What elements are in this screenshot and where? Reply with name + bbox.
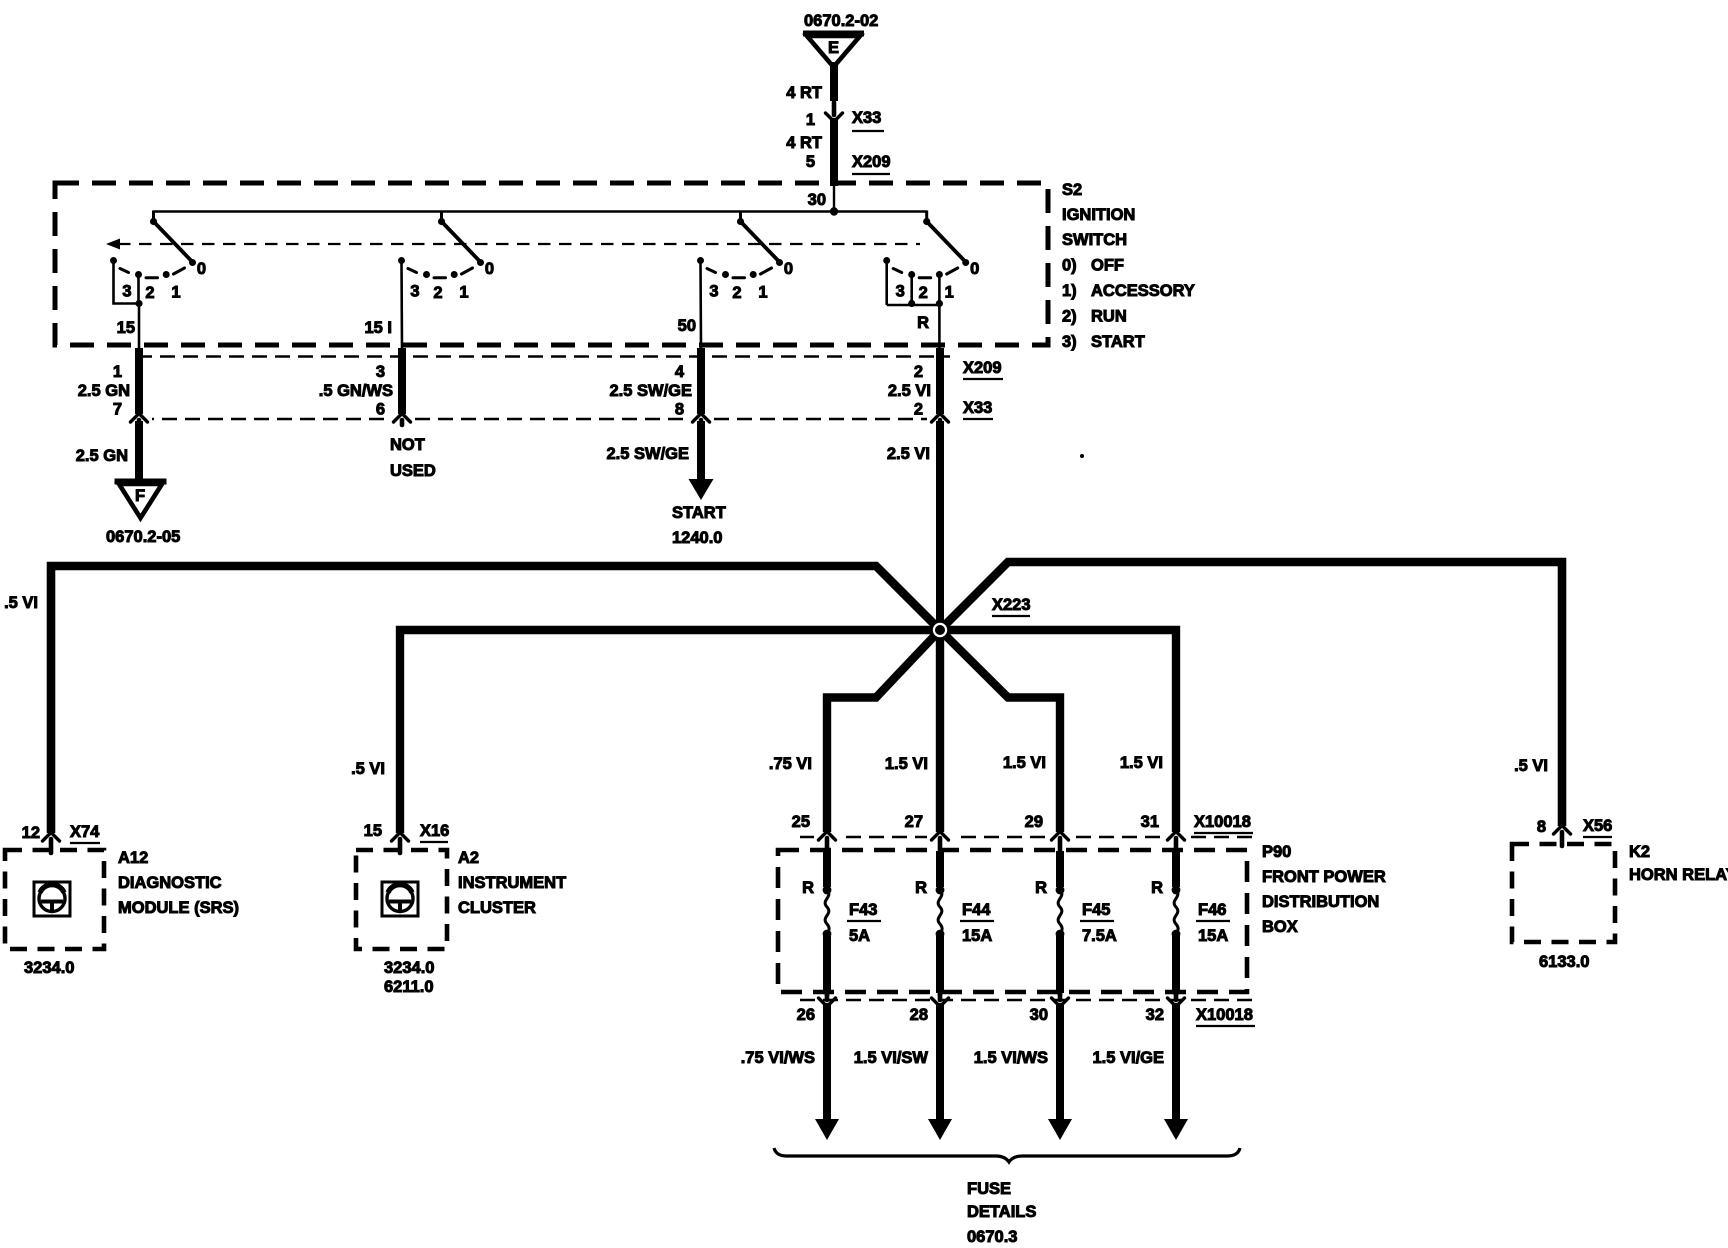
svg-text:.5 GN/WS: .5 GN/WS — [319, 382, 393, 400]
svg-text:X16: X16 — [420, 822, 449, 840]
wire 1.5 VI branch to fuse F45 pin 29 — [940, 630, 1060, 835]
svg-text:7.5A: 7.5A — [1082, 927, 1117, 945]
svg-text:SWITCH: SWITCH — [1062, 231, 1127, 249]
connector X74 pin 12 — [22, 823, 101, 853]
connector X10018 pin 25 — [792, 813, 840, 851]
svg-text:R: R — [1035, 879, 1047, 897]
splice X223 — [929, 596, 1030, 641]
svg-text:0: 0 — [485, 260, 494, 278]
X209 / X33 labels — [963, 359, 1003, 419]
svg-text:INSTRUMENT: INSTRUMENT — [458, 874, 566, 892]
svg-text:8: 8 — [1537, 818, 1546, 836]
svg-text:8: 8 — [675, 401, 684, 419]
svg-text:2: 2 — [914, 363, 923, 381]
wire 1.5 VI branch to fuse F44 pin 27 — [936, 630, 944, 835]
svg-text:2: 2 — [914, 401, 923, 419]
module A2 instrument cluster box — [356, 850, 447, 949]
relay K2 horn relay box — [1512, 844, 1615, 942]
svg-text:15A: 15A — [1198, 927, 1228, 945]
svg-text:2.5 VI: 2.5 VI — [887, 445, 930, 463]
svg-text:1.5 VI: 1.5 VI — [1003, 754, 1046, 772]
svg-text:15 I: 15 I — [364, 319, 392, 337]
ignition switch S2 enclosure — [55, 183, 1048, 345]
svg-text:15: 15 — [364, 822, 382, 840]
connector X16 pin 15 — [364, 822, 450, 853]
svg-text:2: 2 — [919, 284, 928, 302]
S2 ignition switch legend — [1062, 181, 1195, 351]
svg-text:DETAILS: DETAILS — [967, 1203, 1036, 1221]
output wire 1.5 VI/GE with arrow — [1092, 1003, 1188, 1140]
svg-text:FRONT POWER: FRONT POWER — [1262, 868, 1386, 886]
svg-text:DIAGNOSTIC: DIAGNOSTIC — [118, 874, 222, 892]
switch pole 2 (term 15I) of S2 — [398, 211, 494, 350]
svg-text:12: 12 — [22, 824, 40, 842]
svg-text:CLUSTER: CLUSTER — [458, 899, 536, 917]
svg-text:3: 3 — [896, 283, 905, 301]
svg-text:0: 0 — [197, 260, 206, 278]
wire through X209/X33, gauge 2.5 GN — [78, 348, 139, 419]
svg-text:3: 3 — [122, 283, 131, 301]
svg-text:32: 32 — [1146, 1006, 1164, 1024]
svg-text:1: 1 — [459, 284, 468, 302]
fuse F44 15A — [915, 851, 994, 993]
connector X56 pin 8 — [1537, 817, 1613, 846]
svg-text:FUSE: FUSE — [967, 1180, 1011, 1198]
svg-text:E: E — [828, 39, 839, 57]
svg-text:6133.0: 6133.0 — [1539, 953, 1589, 971]
connector X10018 pin 26 — [797, 987, 840, 1024]
wire 2.5 GN to page arrow F — [76, 421, 139, 481]
svg-text:OFF: OFF — [1091, 257, 1124, 275]
svg-text:1: 1 — [758, 284, 767, 302]
terminal 30 bus inside S2 — [154, 207, 927, 215]
steering wheel icon A12 — [34, 882, 70, 916]
connector pinch X33 at .5 GN/WS wire — [389, 414, 415, 425]
svg-text:F46: F46 — [1198, 901, 1226, 919]
svg-text:1): 1) — [1062, 282, 1077, 300]
module A12 diagnostic module (SRS) box — [5, 850, 104, 949]
svg-text:X209: X209 — [963, 359, 1002, 377]
connector X10018 lower dashed line — [800, 999, 1253, 1001]
terminal labels 15 / 15I / 50 / R — [117, 314, 929, 337]
svg-text:R: R — [1151, 879, 1163, 897]
svg-text:4 RT: 4 RT — [786, 134, 822, 152]
svg-text:X209: X209 — [852, 153, 891, 171]
svg-text:1: 1 — [806, 111, 815, 129]
svg-text:F44: F44 — [962, 901, 991, 919]
fuse F45 7.5A — [1035, 851, 1117, 993]
svg-text:X74: X74 — [70, 823, 100, 841]
svg-text:0670.2-02: 0670.2-02 — [804, 12, 878, 30]
switch pole 1 (term 15) of S2 — [110, 211, 206, 350]
brace for fuse details — [774, 1148, 1240, 1162]
fuse F43 5A — [802, 851, 881, 993]
connector X33 pin 1 (top) — [806, 102, 884, 131]
A2 labels — [384, 849, 566, 996]
output wire .75 VI/WS with arrow — [741, 1003, 839, 1140]
svg-text:6: 6 — [376, 401, 385, 419]
svg-text:K2: K2 — [1629, 843, 1650, 861]
K2 labels — [1539, 843, 1728, 971]
svg-text:A2: A2 — [458, 849, 479, 867]
svg-text:DISTRIBUTION: DISTRIBUTION — [1262, 893, 1379, 911]
svg-text:IGNITION: IGNITION — [1062, 206, 1135, 224]
svg-text:S2: S2 — [1062, 181, 1082, 199]
svg-text:1: 1 — [171, 284, 180, 302]
wire through X209/X33, gauge 2.5 SW/GE — [609, 348, 701, 419]
svg-text:R: R — [802, 879, 814, 897]
steering wheel icon A2 — [382, 882, 418, 916]
wire 2.5 SW/GE to START 1240.0 — [606, 421, 725, 547]
output wire 1.5 VI/SW with arrow — [854, 1003, 952, 1140]
switch pole 3 (term 50) of S2 — [697, 211, 793, 350]
connector X10018 pin 32 — [1146, 987, 1189, 1024]
svg-text:R: R — [917, 314, 929, 332]
P90 front power distribution box enclosure — [778, 850, 1247, 992]
svg-text:1: 1 — [945, 284, 954, 302]
svg-text:X223: X223 — [992, 596, 1031, 614]
svg-text:2: 2 — [433, 284, 442, 302]
svg-text:.5 VI: .5 VI — [351, 760, 385, 778]
svg-text:28: 28 — [910, 1006, 928, 1024]
svg-text:50: 50 — [678, 317, 696, 335]
svg-text:26: 26 — [797, 1006, 815, 1024]
svg-text:1.5 VI: 1.5 VI — [885, 755, 928, 773]
svg-text:F45: F45 — [1082, 901, 1110, 919]
svg-text:2.5 SW/GE: 2.5 SW/GE — [606, 445, 689, 463]
connector pinch X33 at 2.5 SW/GE wire — [688, 414, 714, 432]
svg-text:0: 0 — [784, 260, 793, 278]
connector X10018 pin 29 — [1025, 813, 1073, 851]
svg-text:HORN RELAY: HORN RELAY — [1629, 866, 1728, 884]
P90 labels — [1262, 843, 1386, 936]
switch actuation dashed line with arrow — [106, 239, 920, 250]
svg-text:5A: 5A — [849, 927, 870, 945]
X10018 upper label — [1194, 813, 1253, 833]
svg-text:1.5 VI/WS: 1.5 VI/WS — [974, 1049, 1048, 1067]
svg-text:3234.0: 3234.0 — [24, 959, 74, 977]
svg-text:3): 3) — [1062, 333, 1077, 351]
svg-text:ACCESSORY: ACCESSORY — [1091, 282, 1195, 300]
svg-text:.75 VI/WS: .75 VI/WS — [741, 1049, 815, 1067]
svg-text:25: 25 — [792, 813, 810, 831]
svg-text:27: 27 — [905, 813, 923, 831]
svg-text:3: 3 — [709, 283, 718, 301]
wire .5 VI branch to A12 (left bus) — [51, 566, 940, 836]
svg-text:START: START — [1091, 333, 1145, 351]
svg-text:RUN: RUN — [1091, 308, 1127, 326]
wire .5 VI branch to K2 horn relay (right bus) — [940, 562, 1562, 829]
svg-text:1240.0: 1240.0 — [672, 529, 722, 547]
svg-text:30: 30 — [1030, 1006, 1048, 1024]
A12 labels — [24, 849, 239, 977]
NOT USED label (wire 15I) — [390, 436, 436, 480]
connector pinch X33 at 2.5 VI wire — [927, 414, 953, 432]
connector X10018 pin 27 — [905, 813, 953, 851]
svg-text:NOT: NOT — [390, 436, 425, 454]
svg-text:.5 VI: .5 VI — [4, 594, 38, 612]
svg-text:0670.3: 0670.3 — [967, 1228, 1017, 1246]
svg-text:1.5 VI: 1.5 VI — [1120, 754, 1163, 772]
connector X209 dashed line — [137, 355, 950, 357]
wire through X209/X33, gauge 2.5 VI — [888, 348, 940, 419]
svg-text:F: F — [135, 487, 145, 505]
svg-text:START: START — [672, 504, 726, 522]
page destination arrow F (0670.2-05) — [106, 482, 180, 547]
svg-text:1.5 VI/SW: 1.5 VI/SW — [854, 1049, 929, 1067]
svg-text:2.5 GN: 2.5 GN — [78, 382, 130, 400]
terminal 30 feed wire — [808, 184, 834, 213]
svg-text:0: 0 — [970, 260, 979, 278]
svg-text:2.5 SW/GE: 2.5 SW/GE — [609, 382, 692, 400]
svg-text:31: 31 — [1141, 813, 1159, 831]
connector pinch X33 at 2.5 GN wire — [126, 414, 152, 432]
svg-text:2: 2 — [732, 284, 741, 302]
svg-text:X10018: X10018 — [1194, 813, 1251, 831]
svg-text:0): 0) — [1062, 257, 1077, 275]
svg-text:BOX: BOX — [1262, 918, 1298, 936]
svg-text:5: 5 — [806, 153, 815, 171]
wire .75 VI branch to fuse F43 pin 25 — [827, 630, 940, 835]
svg-text:USED: USED — [390, 462, 436, 480]
svg-text:.5 VI: .5 VI — [1514, 757, 1548, 775]
X10018 lower label — [1196, 1006, 1255, 1026]
connector X10018 pin 31 — [1141, 813, 1189, 851]
svg-text:1: 1 — [113, 363, 122, 381]
connector X10018 upper dashed line — [800, 836, 1253, 838]
wire through X209/X33, gauge .5 GN/WS — [319, 348, 402, 419]
svg-text:3234.0: 3234.0 — [384, 959, 434, 977]
fuse F46 15A — [1151, 851, 1230, 993]
svg-text:6211.0: 6211.0 — [384, 978, 434, 996]
wire 2.5 VI from ignition switch to splice X223 — [887, 421, 940, 632]
svg-text:A12: A12 — [118, 849, 148, 867]
stray mark — [1080, 454, 1084, 458]
svg-text:2.5 VI: 2.5 VI — [888, 382, 931, 400]
svg-text:.75 VI: .75 VI — [769, 755, 812, 773]
svg-text:29: 29 — [1025, 813, 1043, 831]
svg-text:X10018: X10018 — [1196, 1006, 1253, 1024]
svg-text:1.5 VI/GE: 1.5 VI/GE — [1092, 1049, 1164, 1067]
svg-text:3: 3 — [376, 363, 385, 381]
svg-text:2: 2 — [145, 284, 154, 302]
wire 4 RT from E to connector X33 — [786, 62, 834, 102]
svg-text:4: 4 — [675, 363, 685, 381]
connector X10018 pin 30 — [1030, 987, 1073, 1024]
svg-text:MODULE (SRS): MODULE (SRS) — [118, 899, 239, 917]
switch pole 4 (term R) of S2 — [883, 211, 979, 350]
svg-text:7: 7 — [113, 401, 122, 419]
svg-text:X56: X56 — [1583, 817, 1612, 835]
FUSE DETAILS 0670.3 label — [967, 1180, 1036, 1246]
connector X10018 pin 28 — [910, 987, 953, 1024]
svg-text:2.5 GN: 2.5 GN — [76, 447, 128, 465]
svg-text:P90: P90 — [1262, 843, 1291, 861]
power source arrow E from page 0670.2-02 — [803, 12, 878, 67]
svg-text:F43: F43 — [849, 901, 877, 919]
svg-text:2): 2) — [1062, 308, 1077, 326]
output wire 1.5 VI/WS with arrow — [974, 1003, 1072, 1140]
wire 4 RT from X33 to X209 pin 5 — [786, 118, 890, 186]
svg-text:X33: X33 — [852, 109, 881, 127]
svg-text:R: R — [915, 879, 927, 897]
svg-text:3: 3 — [410, 283, 419, 301]
svg-text:X33: X33 — [963, 399, 992, 417]
svg-text:15: 15 — [117, 319, 135, 337]
connector X33 dashed line — [139, 418, 950, 420]
svg-text:15A: 15A — [962, 927, 992, 945]
wire .5 VI branch to A2 instrument cluster — [400, 630, 940, 836]
svg-text:4 RT: 4 RT — [786, 84, 822, 102]
svg-text:0670.2-05: 0670.2-05 — [106, 528, 180, 546]
wire 1.5 VI branch to fuse F46 pin 31 — [940, 630, 1176, 835]
svg-text:30: 30 — [808, 191, 826, 209]
